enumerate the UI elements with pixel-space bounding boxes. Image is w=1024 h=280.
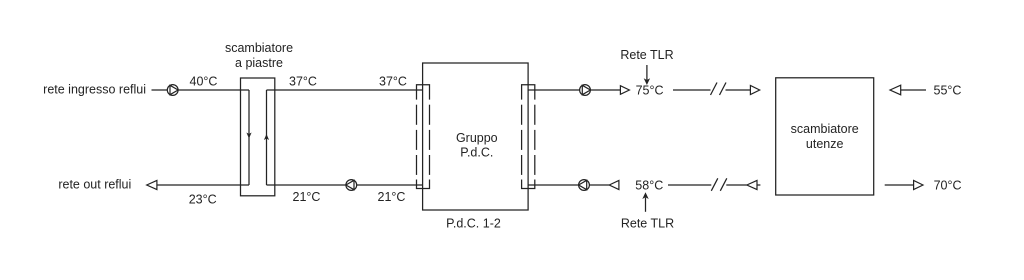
svg-text:37°C: 37°C (289, 74, 317, 88)
svg-text:P.d.C. 1-2: P.d.C. 1-2 (446, 217, 501, 231)
svg-text:rete out reflui: rete out reflui (58, 178, 131, 192)
svg-text:a piastre: a piastre (235, 56, 283, 70)
svg-text:23°C: 23°C (189, 192, 217, 206)
svg-text:utenze: utenze (806, 137, 844, 151)
svg-text:Rete TLR: Rete TLR (621, 216, 674, 230)
svg-text:37°C: 37°C (379, 74, 407, 88)
svg-text:scambiatore: scambiatore (791, 122, 859, 136)
svg-text:Gruppo: Gruppo (456, 131, 498, 145)
svg-text:55°C: 55°C (934, 84, 962, 98)
svg-text:40°C: 40°C (190, 74, 218, 88)
svg-text:70°C: 70°C (934, 179, 962, 193)
svg-text:58°C: 58°C (635, 179, 663, 193)
svg-text:rete ingresso reflui: rete ingresso reflui (43, 82, 146, 96)
svg-text:21°C: 21°C (293, 190, 321, 204)
svg-text:75°C: 75°C (636, 84, 664, 98)
svg-text:21°C: 21°C (378, 190, 406, 204)
svg-text:scambiatore: scambiatore (225, 41, 293, 55)
svg-text:Rete TLR: Rete TLR (620, 48, 673, 62)
svg-text:P.d.C.: P.d.C. (460, 145, 493, 159)
